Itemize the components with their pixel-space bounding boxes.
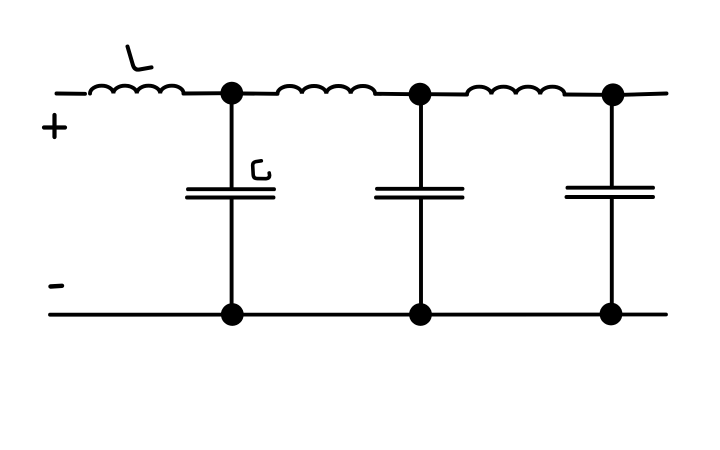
wire node B down to C2 xyxy=(419,103,423,187)
inductor L2 xyxy=(278,86,376,94)
wire L1 to node A xyxy=(184,91,226,95)
inductor L1 xyxy=(90,86,184,94)
capacitor C1 bottom plate xyxy=(187,196,274,200)
node F (bottom junction 3) xyxy=(600,303,623,326)
wire node B to L3 xyxy=(430,92,466,96)
node B (top junction 2) xyxy=(409,83,432,106)
label L xyxy=(128,47,152,70)
label C xyxy=(253,161,270,179)
node A (top junction 1) xyxy=(220,82,243,105)
wire node C down to C3 xyxy=(610,103,614,187)
wire bottom return rail xyxy=(50,313,666,317)
label - (negative input terminal) xyxy=(51,284,63,289)
wire top-right output stub xyxy=(623,94,667,95)
capacitor C3 bottom plate xyxy=(567,195,654,199)
wire C3 down to bottom rail xyxy=(610,199,614,314)
capacitor C1 top plate xyxy=(188,187,274,191)
wire node A to L2 xyxy=(242,92,276,96)
wire C2 down to bottom rail xyxy=(419,199,423,313)
wire L2 to node B xyxy=(375,92,412,96)
wire node A down to C1 xyxy=(230,102,234,188)
capacitor C2 top plate xyxy=(377,187,463,191)
capacitor C2 bottom plate xyxy=(376,196,463,200)
wire C1 down to bottom rail xyxy=(230,199,234,313)
inductor L3 xyxy=(467,87,565,95)
label + (positive input terminal) xyxy=(44,115,65,137)
wire L3 to node C xyxy=(565,93,606,97)
node E (bottom junction 2) xyxy=(409,303,432,326)
capacitor C3 top plate xyxy=(568,186,654,190)
wire top-left input stub xyxy=(57,92,86,96)
node C (top junction 3) xyxy=(602,83,625,106)
node D (bottom junction 1) xyxy=(221,303,244,326)
